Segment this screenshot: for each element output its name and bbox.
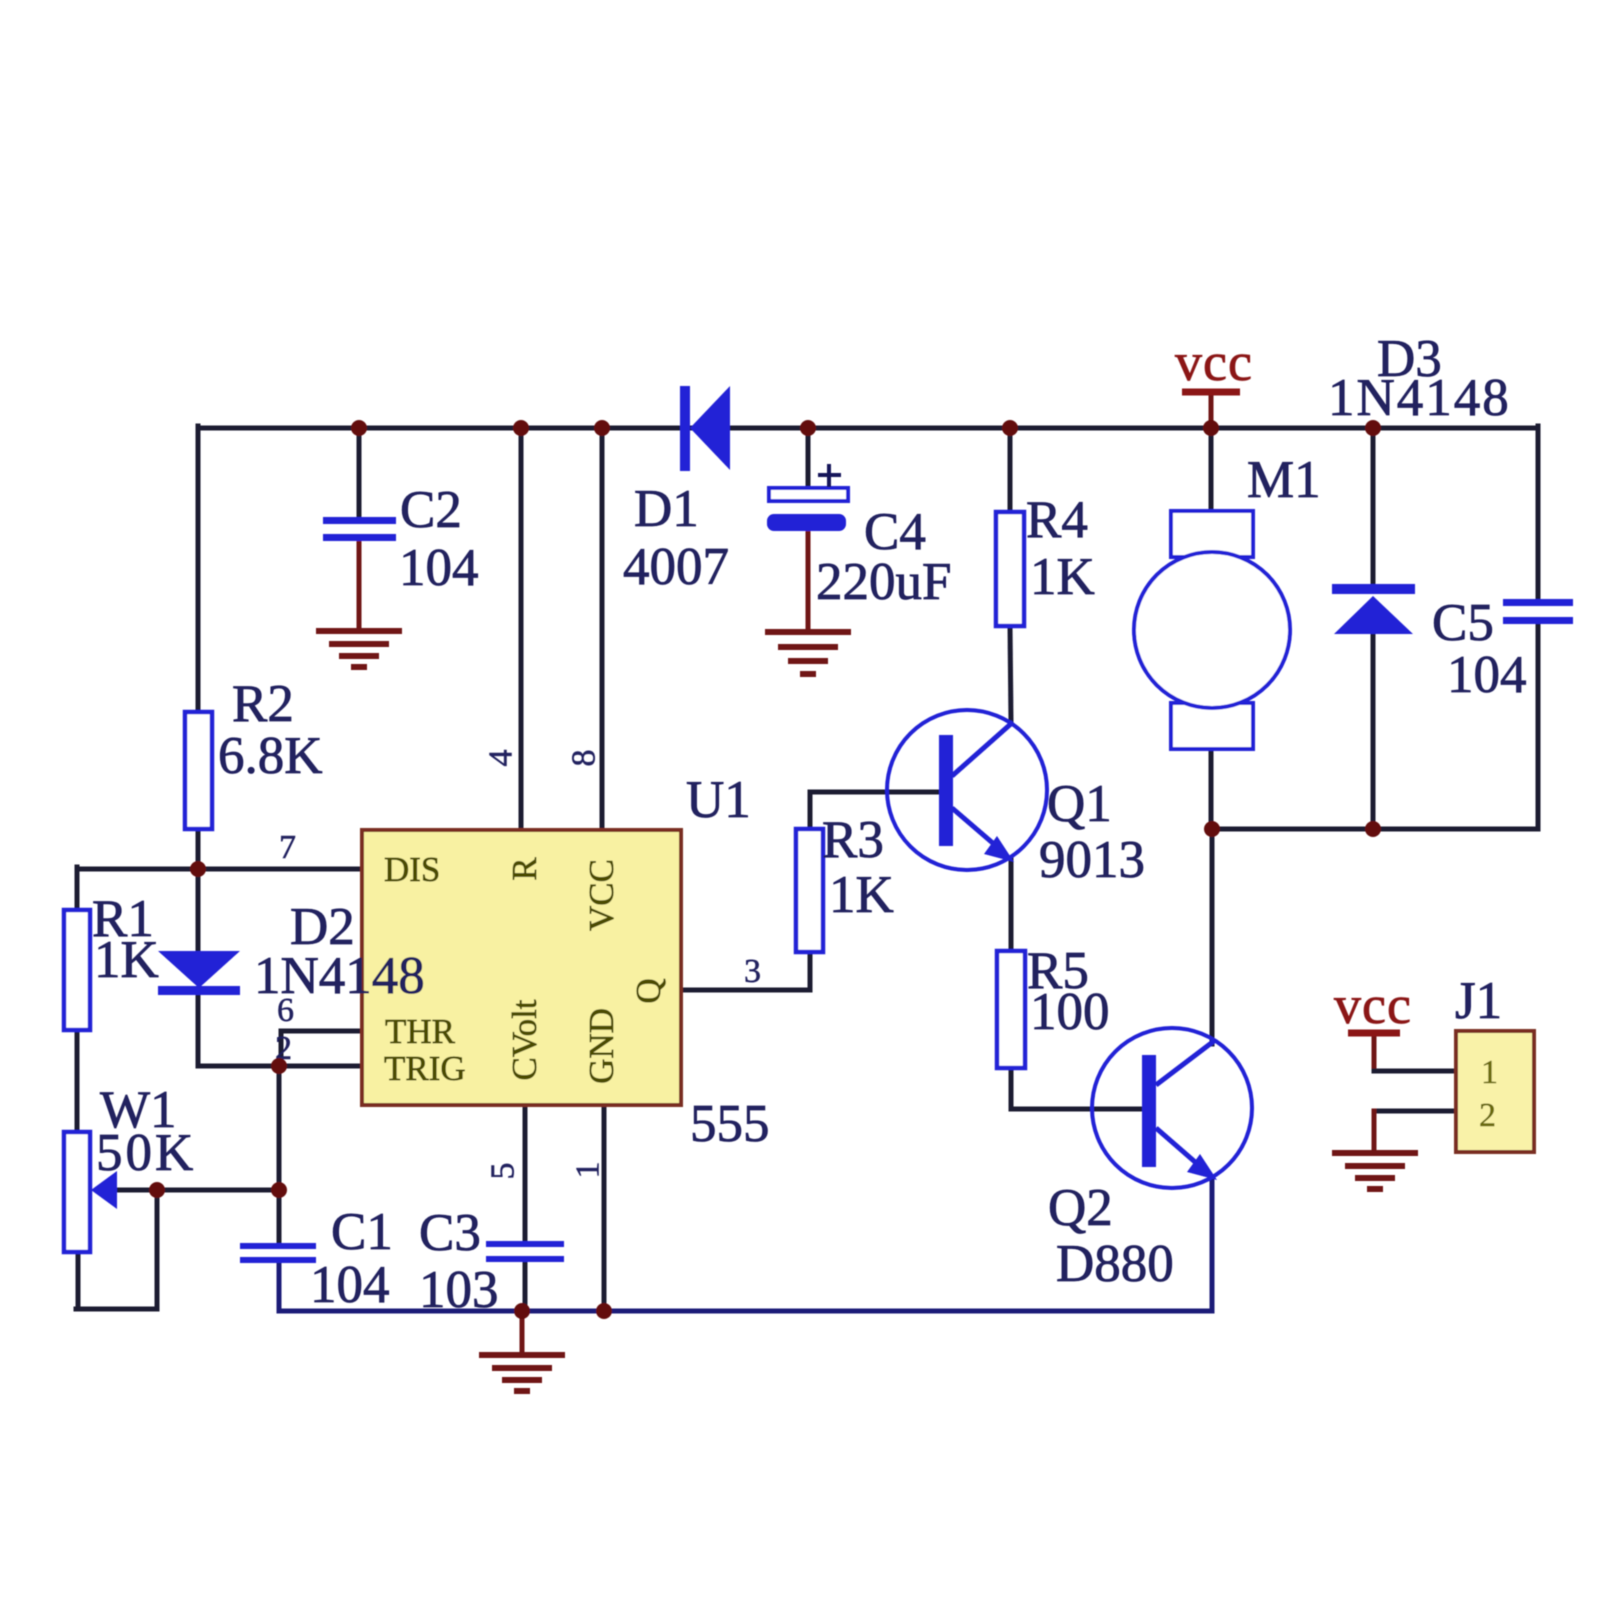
wire THR-TRIG vertical link <box>279 1031 284 1066</box>
svg-text:vcc: vcc <box>1334 975 1412 1035</box>
wire rail ground stub <box>520 1311 525 1352</box>
node R4/top rail <box>1002 420 1018 436</box>
wire R3 bottom lead <box>808 952 813 990</box>
transistor Q1 9013 <box>887 710 1047 870</box>
wire VCC2 stub down <box>1372 1033 1377 1071</box>
wire right edge down to C5 top <box>1536 426 1541 600</box>
resistor R3 <box>796 829 823 952</box>
wire R4 bottom to Q1 collector <box>1010 626 1011 722</box>
svg-text:D880: D880 <box>1056 1235 1174 1293</box>
svg-text:5: 5 <box>485 1163 522 1180</box>
svg-text:R3: R3 <box>822 811 884 869</box>
svg-text:100: 100 <box>1030 983 1110 1041</box>
svg-text:Q1: Q1 <box>1047 775 1112 833</box>
svg-text:GND: GND <box>582 1008 621 1084</box>
diode D1 4007 <box>680 386 730 471</box>
svg-text:TRIG: TRIG <box>384 1049 466 1088</box>
svg-text:1K: 1K <box>829 866 894 924</box>
wire pin8 vertical VCC <box>600 428 605 831</box>
wire J1 pin1 horizontal <box>1374 1069 1456 1074</box>
wire R3 top lead <box>808 792 813 829</box>
svg-text:J1: J1 <box>1455 972 1502 1030</box>
resistor R5 <box>997 951 1025 1068</box>
svg-text:6.8K: 6.8K <box>218 727 323 785</box>
svg-text:Q2: Q2 <box>1048 1179 1113 1237</box>
svg-text:1N4148: 1N4148 <box>1328 369 1511 427</box>
node pin8/top rail <box>594 420 610 436</box>
wire C2 top lead <box>357 428 362 519</box>
node C4/top rail <box>800 420 816 436</box>
wire TRIG pin2 horizontal <box>279 1064 362 1069</box>
node rail ground <box>514 1303 530 1319</box>
ground below C2 <box>316 631 402 667</box>
wire pin1 GND vertical <box>602 1104 607 1311</box>
wire bottom right horizontal to motor/Q2 node <box>1211 827 1538 832</box>
wire W1 loop right vertical up to wiper <box>155 1188 160 1309</box>
svg-text:104: 104 <box>1447 646 1527 704</box>
power VCC symbol at J1 <box>1334 975 1412 1035</box>
wire pin3 Q output horizontal <box>681 988 810 993</box>
wire C4 top lead <box>806 428 811 490</box>
svg-text:R2: R2 <box>232 675 294 733</box>
node pin4/top rail <box>513 420 529 436</box>
wire D3 top lead <box>1371 428 1376 587</box>
svg-text:555: 555 <box>690 1095 770 1153</box>
svg-text:C3: C3 <box>419 1204 481 1262</box>
op-amp U1 555 timer body <box>362 830 681 1105</box>
wire J1 ground stub <box>1372 1111 1377 1150</box>
svg-text:D1: D1 <box>634 480 699 538</box>
wire C4 bottom lead to ground <box>806 533 811 629</box>
wire motor top lead <box>1209 428 1214 512</box>
svg-text:THR: THR <box>385 1012 456 1051</box>
wire pin4 vertical R <box>519 428 524 831</box>
wire R1 bottom to W1 top <box>75 1029 80 1132</box>
svg-text:C2: C2 <box>400 481 462 539</box>
wire C2 bottom lead to ground <box>357 540 362 629</box>
wire motor bottom lead <box>1209 748 1214 829</box>
ground below rail at pin5 node <box>479 1355 565 1391</box>
wire wiper horizontal <box>114 1188 279 1193</box>
wire R5 bottom lead <box>1009 1068 1014 1109</box>
node D3/top rail <box>1365 420 1381 436</box>
wire Q1 base horizontal <box>810 790 938 795</box>
svg-text:104: 104 <box>310 1256 390 1314</box>
power VCC symbol at top rail <box>1175 332 1253 392</box>
wire Q2 emitter down to ground rail <box>1210 1178 1215 1311</box>
wire C3 bottom lead <box>523 1259 528 1311</box>
capacitor C5 <box>1503 599 1573 624</box>
wire left drop from top rail to R2 <box>196 426 201 712</box>
svg-text:9013: 9013 <box>1039 831 1145 889</box>
svg-text:vcc: vcc <box>1175 332 1253 392</box>
svg-text:3: 3 <box>744 953 761 990</box>
node D3 bottom <box>1365 821 1381 837</box>
svg-text:220uF: 220uF <box>816 553 951 611</box>
wire R2 bottom to DIS node <box>196 828 201 869</box>
svg-text:1N4148: 1N4148 <box>254 947 425 1005</box>
node rail pin1 <box>596 1303 612 1319</box>
capacitor C3 <box>486 1241 564 1262</box>
node wiper/C1 <box>271 1182 287 1198</box>
wire C1 bottom lead to ground rail <box>277 1260 282 1311</box>
ground at J1 <box>1332 1153 1418 1189</box>
wire DIS pin7 horizontal <box>77 867 362 872</box>
svg-text:103: 103 <box>419 1261 499 1319</box>
capacitor C4 electrolytic <box>767 464 848 531</box>
svg-text:M1: M1 <box>1247 451 1321 509</box>
resistor R2 <box>185 712 212 829</box>
svg-text:4007: 4007 <box>623 538 729 596</box>
svg-text:Q: Q <box>629 978 668 1003</box>
diode D2 1N4148 <box>158 951 240 995</box>
svg-text:4: 4 <box>483 750 520 767</box>
svg-text:8: 8 <box>566 750 603 767</box>
wire TRIG node down to C1 <box>277 1066 282 1243</box>
wire pin5 CVolt vertical to C3 <box>523 1104 528 1243</box>
wire W1 bottom lead <box>76 1252 81 1309</box>
node motor bottom/Q2 <box>1204 821 1220 837</box>
wire THR pin6 horizontal <box>281 1029 362 1034</box>
wire bottom ground rail <box>279 1309 1212 1314</box>
wire W1 loop bottom <box>76 1307 157 1312</box>
node C2/top rail <box>351 420 367 436</box>
svg-text:7: 7 <box>279 829 296 866</box>
svg-text:C5: C5 <box>1432 594 1494 652</box>
resistor R4 <box>996 512 1024 626</box>
capacitor C1 <box>240 1243 316 1263</box>
svg-text:U1: U1 <box>686 771 751 829</box>
wire R5 to Q2 base <box>1011 1107 1142 1112</box>
wire motor node down to Q2 collector <box>1210 829 1215 1044</box>
connector J1 body <box>1456 1031 1534 1152</box>
wire C5 bottom to bottom-right rail <box>1536 623 1541 829</box>
potentiometer W1 body <box>64 1132 90 1252</box>
motor M1 <box>1134 511 1290 749</box>
svg-text:2: 2 <box>1479 1097 1496 1134</box>
svg-text:104: 104 <box>399 539 479 597</box>
wire DIS node down to D2 anode <box>196 869 201 952</box>
diode D3 1N4148 flyback <box>1332 584 1415 634</box>
node D2/TRIG <box>271 1058 287 1074</box>
svg-text:DIS: DIS <box>384 850 440 889</box>
wire D2 cathode down <box>196 994 201 1066</box>
svg-text:1: 1 <box>570 1162 607 1179</box>
capacitor C2 <box>323 517 396 541</box>
svg-text:CVolt: CVolt <box>505 999 544 1080</box>
svg-text:C1: C1 <box>331 1203 393 1261</box>
svg-text:R: R <box>505 857 544 881</box>
svg-text:1K: 1K <box>94 931 159 989</box>
wire left drop to R1 <box>75 867 80 910</box>
wire J1 pin2 horizontal <box>1374 1109 1456 1114</box>
potentiometer W1 wiper arrow <box>91 1171 117 1209</box>
wire top rail VCC net <box>198 426 1538 431</box>
wire Q1 emitter to R5 <box>1009 858 1014 951</box>
wire D3 bottom lead <box>1371 632 1376 829</box>
svg-text:50K: 50K <box>96 1124 196 1182</box>
transistor Q2 D880 <box>1092 1028 1252 1188</box>
resistor R1 <box>64 910 90 1030</box>
ground below C4 <box>765 632 851 674</box>
node VCC/motor top rail <box>1203 420 1219 436</box>
node wiper/loop <box>149 1182 165 1198</box>
wire VCC stub to top rail <box>1209 392 1214 428</box>
wire D2 to TRIG node <box>198 1064 279 1069</box>
svg-text:1: 1 <box>1481 1054 1498 1091</box>
svg-text:R4: R4 <box>1026 491 1088 549</box>
svg-text:VCC: VCC <box>582 859 621 931</box>
node R2/DIS <box>190 861 206 877</box>
svg-text:1K: 1K <box>1030 548 1095 606</box>
wire R4 top lead <box>1008 428 1013 512</box>
